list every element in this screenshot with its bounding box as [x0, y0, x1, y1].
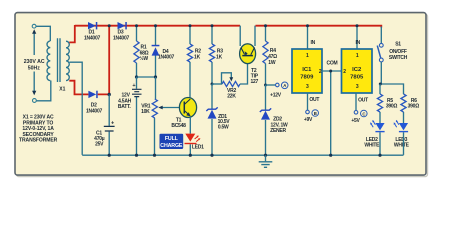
svg-text:A: A — [283, 83, 286, 88]
svg-text:BATT.: BATT. — [118, 104, 131, 110]
transformer X1 — [47, 38, 69, 92]
transistor T2 — [240, 44, 259, 85]
wire: ground rail — [82, 154, 403, 156]
label: COM — [327, 61, 338, 67]
svg-text:1N4007: 1N4007 — [113, 35, 129, 41]
wire: R5 leads — [379, 84, 381, 123]
AC input voltage arrow — [32, 29, 36, 95]
wire: secondary bottom tap to D2 (red) — [69, 81, 88, 95]
svg-text:BC548: BC548 — [171, 123, 186, 129]
wire: IC2 OUT lead — [355, 93, 357, 110]
svg-text:OUT: OUT — [309, 97, 319, 103]
svg-text:+5V: +5V — [351, 118, 360, 124]
wire: +12V regulated rail (red) — [256, 26, 382, 28]
wire: node A spur — [266, 84, 276, 86]
wire: IC1 IN lead — [306, 24, 309, 49]
svg-text:127: 127 — [251, 79, 259, 85]
svg-text:1K: 1K — [194, 54, 201, 60]
svg-text:7809: 7809 — [300, 74, 314, 80]
switch S1 — [377, 42, 407, 62]
svg-text:SWITCH: SWITCH — [389, 55, 408, 61]
zener ZD2 — [260, 108, 288, 134]
terminal: test point B — [306, 110, 319, 117]
wire: R3 leads — [211, 24, 214, 85]
label: +9V — [304, 117, 313, 123]
label: FULL CHARGE — [160, 134, 184, 149]
wire: R1 leads — [135, 24, 138, 78]
svg-text:C: C — [362, 111, 365, 116]
battery BATT 12V 4.5AH — [118, 77, 142, 157]
transistor T1 — [171, 98, 196, 130]
svg-text:TRANSFORMER: TRANSFORMER — [19, 138, 58, 144]
resistor R4 — [263, 41, 277, 66]
svg-text:25V: 25V — [95, 142, 104, 148]
resistor R5 — [377, 94, 397, 112]
wire: T1 emitter to LED1 and ground — [189, 117, 192, 157]
svg-text:IC1: IC1 — [302, 67, 312, 73]
label: X1 transformer note — [19, 115, 58, 144]
svg-text:7805: 7805 — [350, 74, 364, 80]
svg-text:CHARGE: CHARGE — [160, 143, 183, 149]
wire: AC input top lead — [36, 26, 50, 41]
terminal: test point C — [354, 110, 367, 117]
wire: LED3 bottom lead — [403, 132, 405, 155]
wire: secondary top tap to top rail (red) — [69, 25, 75, 42]
svg-text:22K: 22K — [227, 93, 236, 99]
potentiometer VR2 — [222, 81, 240, 99]
diode D3 — [113, 22, 129, 41]
wire: rail drop to S1 — [380, 27, 382, 44]
resistor R6 — [401, 94, 419, 112]
resistor R2 — [187, 44, 201, 62]
LED LED2 (white) — [364, 120, 384, 149]
wire: ZD1 leads — [210, 84, 213, 157]
terminal: test point A — [276, 82, 289, 89]
wire: R1 to D4 tie — [137, 76, 156, 78]
wire: transformer centre tap to ground rail — [69, 62, 82, 155]
ground — [259, 155, 273, 167]
svg-text:390Ω: 390Ω — [408, 104, 420, 110]
svg-text:IN: IN — [355, 40, 360, 46]
wire: VR2 wiper loop — [222, 73, 234, 84]
resistor R1 — [134, 41, 149, 63]
terminal: AC input top — [32, 24, 36, 28]
diode D4 — [152, 45, 175, 61]
svg-text:IN: IN — [311, 40, 316, 46]
svg-text:+9V: +9V — [304, 117, 313, 123]
svg-text:X1: X1 — [59, 86, 65, 92]
svg-text:IC2: IC2 — [352, 67, 362, 73]
capacitor C1 — [94, 120, 114, 147]
terminal: AC input bottom — [33, 99, 37, 103]
svg-text:B: B — [314, 111, 317, 116]
node: rectifier output junctions — [108, 24, 111, 96]
svg-text:COM: COM — [327, 61, 338, 67]
svg-text:230V AC: 230V AC — [24, 59, 45, 65]
wire: VR1 leads — [153, 77, 156, 157]
wire: VR2 to T2 base — [240, 63, 248, 85]
svg-text:0.5W: 0.5W — [218, 125, 229, 131]
label: +5V — [351, 118, 360, 124]
wire: R6 leads — [403, 112, 405, 123]
svg-text:1W: 1W — [268, 60, 276, 66]
resistor R3 — [209, 44, 223, 62]
wire: T2 emitter drop from left rail — [239, 26, 241, 46]
wire: R2 leads — [189, 24, 192, 98]
svg-text:1N4007: 1N4007 — [86, 108, 102, 114]
wire: R3 to VR2 tie — [212, 83, 222, 85]
wire: LED2 bottom lead — [378, 132, 381, 156]
svg-text:50Hz: 50Hz — [28, 66, 41, 72]
svg-text:+12V: +12V — [270, 93, 282, 99]
svg-text:ZENER: ZENER — [270, 128, 286, 134]
svg-text:½W: ½W — [140, 55, 149, 62]
wire: D4 leads — [154, 24, 157, 78]
wire: D2 cathode riser to rail (red) — [98, 25, 110, 94]
wire: COM tie and drop to ground — [322, 70, 342, 157]
wire: S1 to R5/R6 tie — [379, 62, 404, 94]
svg-text:WHITE: WHITE — [364, 143, 380, 149]
potentiometer VR1 — [141, 99, 157, 118]
svg-text:OUT: OUT — [358, 97, 368, 103]
wire: IC1 OUT lead — [307, 93, 309, 110]
svg-text:1N4007: 1N4007 — [158, 55, 174, 61]
wire: unregulated +V top rail (red) — [75, 25, 240, 27]
wire: T2 collector riser to +12V rail — [254, 26, 256, 46]
svg-text:1N4007: 1N4007 — [84, 35, 100, 41]
svg-text:+: + — [111, 120, 114, 126]
diode D1 — [84, 22, 100, 41]
regulator IC2 7805 — [342, 40, 373, 103]
diode D2 — [86, 91, 102, 115]
wire: VR1 wiper to T1 base — [158, 106, 179, 110]
svg-text:ON/OFF: ON/OFF — [389, 49, 407, 55]
svg-text:S1: S1 — [395, 42, 401, 48]
wire: C1 leads — [108, 95, 111, 157]
wire: R4 leads — [264, 24, 267, 86]
label: +12V — [270, 93, 282, 99]
zener ZD1 — [206, 107, 230, 130]
label: 230V AC 50Hz — [24, 59, 45, 72]
svg-text:FULL: FULL — [165, 136, 179, 142]
svg-text:LED1: LED1 — [192, 144, 204, 150]
svg-text:WHITE: WHITE — [394, 143, 410, 149]
svg-text:1K: 1K — [216, 54, 223, 60]
regulator IC1 7809 — [292, 40, 322, 103]
LED LED1 (red) — [185, 134, 205, 151]
svg-text:390Ω: 390Ω — [386, 104, 398, 110]
wire: IC2 IN lead — [356, 24, 359, 49]
wire: ZD2 leads — [264, 85, 267, 157]
LED LED3 (white) — [394, 120, 410, 149]
wire: AC input bottom lead — [36, 81, 51, 101]
svg-text:10K: 10K — [141, 109, 150, 115]
svg-text:+: + — [132, 83, 135, 89]
